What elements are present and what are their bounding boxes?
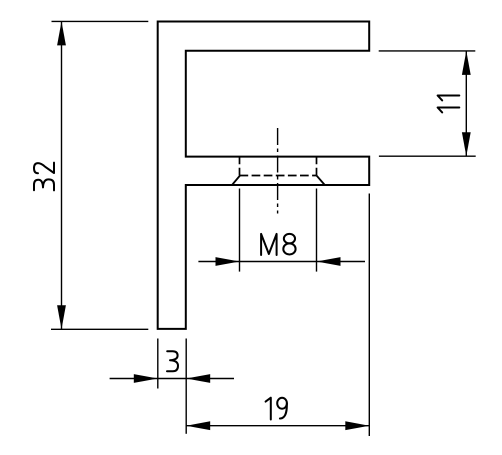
dim M8 text [261, 234, 296, 255]
dim 19 arrow left-pointing [186, 421, 210, 430]
dim M8 extension line left [239, 189, 241, 272]
dim M8 arrow right-pointing [216, 257, 240, 266]
dim 3 extension line left [157, 339, 159, 389]
dim M8 arrow left-pointing [317, 257, 341, 266]
dim 19 extension line right [368, 194, 370, 437]
profile outline (F-shaped section) [158, 22, 370, 329]
dim 32 arrow up [57, 21, 66, 45]
dim 3 dimension line [110, 378, 234, 380]
dim 11 dimension line [465, 51, 467, 156]
dim 19 text [266, 398, 287, 420]
dim 3 extension line right [185, 339, 187, 434]
dim 32 text [34, 163, 54, 191]
dim M8 dimension line [198, 261, 365, 263]
thread hole hidden line right [316, 157, 318, 176]
dim 32 extension line top [52, 20, 149, 22]
dim 11 extension line top [379, 50, 476, 52]
dim 3 arrow left-pointing [186, 374, 210, 383]
dim 32 arrow down [57, 305, 66, 329]
dim 11 arrow down [462, 132, 471, 156]
dim 3 arrow right-pointing [134, 374, 158, 383]
thread hole hidden line left [239, 157, 241, 176]
chamfer left [232, 176, 240, 186]
chamfer right [317, 176, 325, 186]
dim 3 text [167, 351, 178, 371]
thread depth hidden line [240, 175, 317, 177]
dim 11 extension line bottom [379, 155, 476, 157]
dim 11 arrow up [462, 51, 471, 75]
dim 32 extension line bottom [51, 328, 148, 330]
dim 32 dimension line [61, 21, 63, 329]
dim 19 dimension line [186, 425, 369, 427]
dim 11 text [438, 96, 460, 113]
hole centerline [277, 128, 279, 214]
dim 19 arrow right-pointing [345, 421, 369, 430]
dim M8 extension line right [316, 189, 318, 272]
